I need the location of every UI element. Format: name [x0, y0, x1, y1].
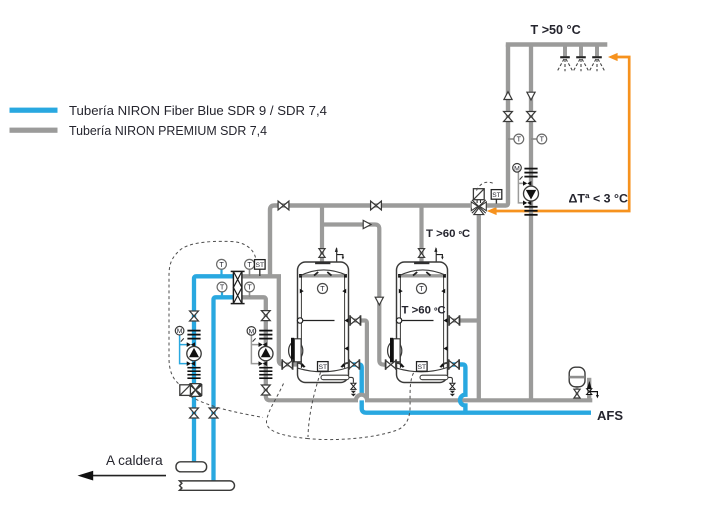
tank 1 top valve — [319, 249, 325, 258]
primary blue top pipe — [194, 276, 234, 462]
tank 1 top connection pipe — [320, 206, 324, 263]
dashed control line tank 1 ST — [308, 373, 321, 438]
T sensor primary bottom — [217, 282, 227, 292]
legend gray pipe sample — [10, 128, 58, 133]
dashed control loop left branch — [266, 384, 307, 439]
svg-text:Tubería NIRON Fiber Blue SDR 9: Tubería NIRON Fiber Blue SDR 9 / SDR 7,4 — [69, 103, 327, 118]
shutoff valve on riser — [504, 112, 513, 122]
check arrow primary top — [187, 342, 195, 347]
secondary pump valve bottom — [261, 385, 270, 395]
check arrow secondary bottom — [259, 361, 267, 366]
flange above recirc pump — [524, 168, 537, 178]
tank 2 top connection pipe — [419, 206, 423, 263]
pipe: cold return from mixing valve — [477, 212, 481, 400]
tank 2 safety valve — [434, 247, 443, 263]
tank 2 mid valve — [449, 315, 459, 325]
3-way thermostatic mixing valve — [471, 189, 486, 215]
plate heat exchanger — [231, 271, 245, 303]
manifold valve left — [278, 201, 289, 210]
secondary pump motor line — [251, 335, 261, 364]
primary pump — [187, 346, 201, 360]
svg-text:A caldera: A caldera — [106, 453, 163, 468]
secondary pump motor M — [247, 327, 256, 336]
T sensor stub primary bottom — [221, 292, 223, 297]
tank 1 drain valve — [351, 383, 356, 396]
dashed control loop right branch — [307, 372, 415, 440]
svg-text:T >60 ºC: T >60 ºC — [426, 228, 470, 240]
flange below secondary pump — [259, 367, 272, 379]
flow arrow down on recirc — [527, 92, 535, 100]
tank 1 (storage cylinder) — [289, 262, 354, 383]
orange delta-T signal line — [496, 57, 629, 211]
tank 1 cold feed blue pipe — [349, 365, 592, 413]
primary pump motor M — [175, 326, 184, 335]
flange above secondary pump — [259, 330, 272, 340]
T sensor stub recirc — [531, 138, 537, 140]
svg-text:ΔTª < 3 °C: ΔTª < 3 °C — [569, 191, 628, 205]
shower drop stub 1 — [563, 46, 567, 56]
legend blue pipe sample — [10, 108, 58, 113]
tank 1 cold valve — [349, 359, 359, 369]
white gap under blue hop — [459, 393, 466, 407]
pipe to tank 1 lower port — [279, 275, 297, 365]
check arrow bottom — [523, 201, 531, 206]
T sensor primary top — [217, 259, 227, 269]
primary blue bottom pipe — [214, 297, 234, 481]
tank 1 mid return pipe — [349, 321, 367, 401]
flow arrow down on feed pipe — [375, 297, 383, 305]
tank 2 top valve — [418, 249, 424, 258]
expansion vessel stem — [576, 386, 579, 400]
boiler header stub 2 — [180, 481, 235, 490]
shutoff valve on recirc — [527, 112, 536, 122]
tank 1 lower feed valve — [282, 359, 292, 369]
orange arrowhead at mixing valve — [487, 207, 497, 215]
flange below recirc pump — [524, 206, 537, 216]
check arrow top — [523, 181, 531, 186]
shower drop stub 3 — [595, 46, 599, 56]
boiler header stub 1 — [176, 462, 207, 472]
AFS safety valve stub — [587, 378, 591, 400]
expansion vessel valve — [574, 389, 580, 398]
T sensor recirc — [537, 134, 547, 144]
tank 2 lower feed valve — [386, 359, 396, 369]
AFS safety valve — [587, 381, 599, 399]
recirc pump motor line — [518, 171, 526, 203]
shower drop stub 2 — [579, 46, 583, 56]
T sensor stub HX top right — [249, 270, 251, 277]
dashed control arc valve to ST — [477, 182, 496, 190]
expansion vessel — [569, 367, 585, 387]
T sensor HX bottom right — [245, 282, 255, 292]
motor tick primary — [181, 338, 184, 341]
feed pipe to tank 2 lower port — [322, 225, 387, 365]
svg-text:AFS: AFS — [597, 408, 623, 423]
secondary pump — [259, 346, 273, 360]
tank 1 safety valve — [335, 247, 344, 263]
primary pump valve top — [190, 311, 199, 321]
plate heat exchanger secondary top pipe — [242, 274, 281, 278]
tank 2 cold valve — [449, 359, 459, 369]
ST controller stem — [495, 199, 497, 204]
primary pump motor line — [180, 335, 190, 364]
svg-text:T >60 ºC: T >60 ºC — [402, 305, 446, 317]
T sensor stub primary top — [220, 270, 222, 277]
shower head 2 — [574, 56, 589, 71]
flange above primary pump — [187, 330, 200, 340]
tank 1 mid valve — [350, 315, 360, 325]
secondary pump line — [264, 311, 268, 392]
svg-text:T >50 °C: T >50 °C — [531, 23, 581, 37]
recirculation pump — [524, 186, 539, 201]
ST controller at valve — [491, 190, 502, 200]
T sensor stub HX bottom right — [249, 292, 251, 297]
dashed control loop around primary group — [169, 241, 256, 384]
check arrow secondary top — [259, 342, 267, 347]
ST controller HX — [255, 260, 266, 270]
hot supply manifold from tanks — [270, 206, 472, 277]
manifold valve right — [371, 201, 382, 210]
shower supply header pipe — [506, 42, 608, 46]
T sensor riser — [514, 134, 524, 144]
flange below primary pump — [187, 367, 200, 379]
motor tick — [520, 176, 523, 179]
primary supply shutoff — [190, 408, 199, 418]
secondary pump valve top — [261, 311, 270, 321]
motor tick secondary — [253, 338, 256, 341]
shower head 3 — [590, 56, 605, 71]
T sensor HX top right — [245, 259, 255, 269]
recirc pump motor M — [513, 164, 522, 173]
check arrow primary bottom — [187, 361, 195, 366]
dashed control line valve to bottom loop — [191, 397, 264, 418]
shower head 1 — [558, 56, 573, 71]
plate heat exchanger secondary bottom pipe — [242, 297, 266, 313]
tank 2 mid return pipe — [448, 318, 478, 322]
T sensor stub riser — [508, 138, 514, 140]
arrow to boiler — [90, 475, 166, 477]
tank 2 drain valve — [450, 383, 455, 396]
tank 2 (storage cylinder) — [388, 262, 453, 383]
flow arrow right on feed pipe — [363, 220, 371, 228]
3-way diverting valve primary — [180, 384, 202, 397]
primary return shutoff — [209, 408, 218, 418]
white gap under gray hop — [355, 393, 369, 400]
bottom gray manifold — [266, 388, 593, 400]
ST controller stem HX — [259, 269, 261, 276]
flow arrow up on riser — [504, 92, 512, 100]
orange arrowhead at showers — [608, 53, 618, 61]
pipe: mixed water riser to showers — [486, 45, 508, 206]
pipe: recirculation return column — [529, 45, 533, 401]
tank 2 cold feed blue pipe — [448, 365, 466, 413]
svg-text:Tubería NIRON PREMIUM SDR 7,4: Tubería NIRON PREMIUM SDR 7,4 — [69, 123, 267, 138]
